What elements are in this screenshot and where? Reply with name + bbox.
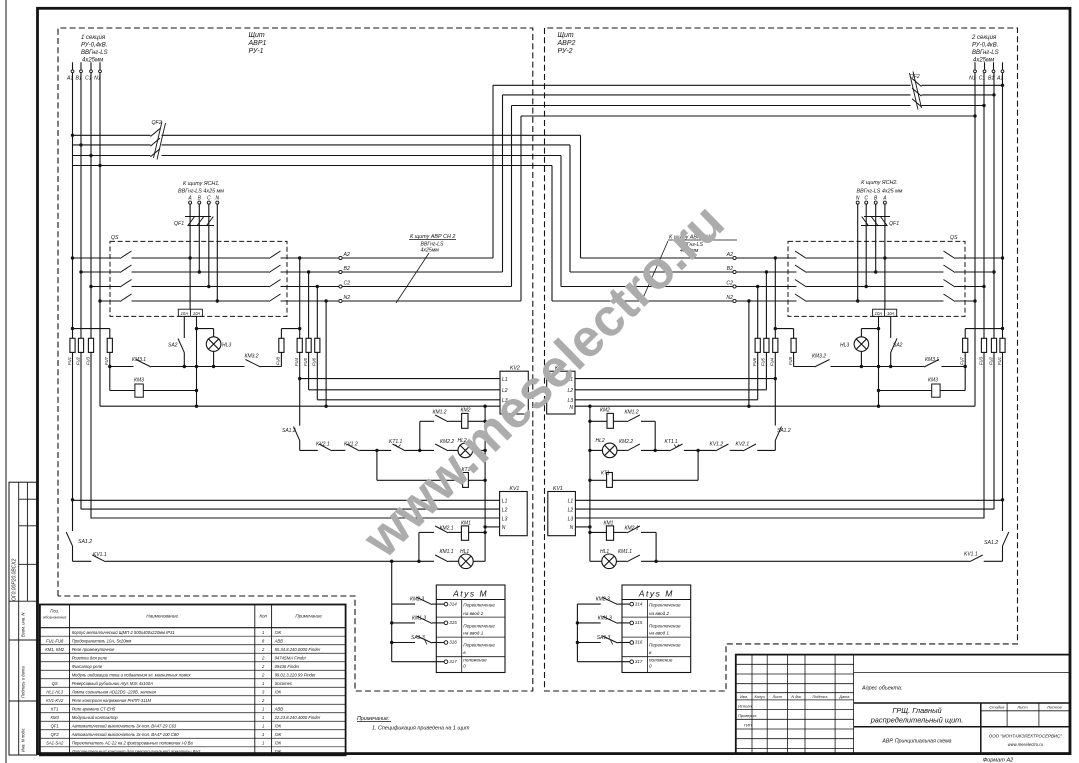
svg-text:РУ-0,4кВ.: РУ-0,4кВ. [972,43,998,49]
title block Стадия Лист Листов [989,705,1061,710]
feeder label 1 секция [81,35,108,64]
bus C section 1 to crossover [73,149,562,287]
relay box KV2 (left) [500,366,528,415]
svg-text:Поз.: Поз. [50,609,59,614]
svg-text:КМ3: КМ3 [51,715,60,720]
svg-text:A2: A2 [726,252,733,258]
svg-text:Щит: Щит [558,32,574,39]
svg-text:РУ-0,4кВ.: РУ-0,4кВ. [81,43,107,49]
svg-text:К щиту ЯСН1.: К щиту ЯСН1. [183,181,220,187]
bus A section 2 to crossover [493,79,1003,259]
contact KM3.1 (left) [132,357,151,367]
fuse FU6 (right) [752,338,760,366]
svg-text:QF2: QF2 [152,120,162,126]
svg-text:АВР. Принципиальная схема: АВР. Принципиальная схема [881,739,951,745]
svg-text:KV1: KV1 [553,486,563,492]
svg-text:FU7: FU7 [104,356,109,365]
time relay coil KT1 (right) [588,450,698,487]
svg-text:FU1: FU1 [67,357,72,365]
contact KM1.2 (left) [420,410,448,451]
svg-text:L1: L1 [568,499,574,505]
switch SA1.3 (right) [577,635,630,645]
title block header row labels [740,695,850,699]
svg-text:FU7: FU7 [960,356,965,365]
lamp HL3 (left) [197,329,232,367]
svg-text:Проверил.: Проверил. [738,713,757,718]
svg-text:315: 315 [635,620,643,625]
svg-text:B2: B2 [727,266,733,272]
svg-text:С: С [207,196,211,202]
svg-text:B2: B2 [344,266,350,272]
specification table rows [45,630,321,754]
wire KM3 control row (right) [794,365,966,368]
contact KM1.1 (right) [618,549,640,562]
svg-text:на ввод 1: на ввод 1 [463,631,483,636]
svg-text:АВР2: АВР2 [557,40,576,47]
svg-text:10А: 10А [181,311,189,316]
svg-text:FU1: FU1 [997,357,1002,365]
ATS controller Atys M box (right) [622,585,691,673]
wire row C2 (right QS) [561,280,984,288]
svg-text:314: 314 [635,601,643,606]
switch SA1.2 upper (left) [282,379,300,451]
wire Atys rail (right) [576,604,579,662]
svg-text:Переключение: Переключение [649,624,681,629]
svg-text:КМ1.3: КМ1.3 [598,615,612,621]
svg-text:Atys M: Atys M [638,589,674,599]
label Щит АВР2 РУ-2 [557,32,576,55]
svg-text:QF2: QF2 [910,74,920,80]
svg-text:1: 1 [262,732,264,737]
switch QS (right) dashed box [788,241,965,316]
svg-text:QF2: QF2 [51,732,60,737]
svg-text:Адрес объекта:: Адрес объекта: [861,686,903,692]
contact KM2.2 (left) [435,439,454,451]
svg-text:Реле времени СТ-ЕН5: Реле времени СТ-ЕН5 [72,706,116,711]
svg-text:IЭК: IЭК [275,689,282,694]
switch SA1.2 upper (right) [775,379,791,451]
svg-text:316: 316 [449,640,457,645]
fuse FU2 (right) [988,338,996,365]
relay coil KM2 (right) [588,408,627,429]
svg-text:2 секция: 2 секция [971,35,997,41]
wire N common rail (left) [484,406,486,561]
svg-text:Atys M: Atys M [452,589,488,599]
contact KM2.2 (right) [619,439,640,451]
svg-text:HL3: HL3 [222,343,231,349]
panel boundary box Щит АВР2 (dashed) [545,28,1018,691]
svg-text:на ввод 1: на ввод 1 [649,631,669,636]
node A1 B1 C1 N1 (section 1 terminals) [66,62,101,81]
node N1 C1 B1 A1 (section 2 terminals) [969,62,1004,81]
wire taps QS rows to KV2 fuses (left) [298,256,328,408]
wire meter box to N rail (left) [195,316,198,408]
svg-text:QS: QS [950,235,958,241]
svg-text:N: N [570,525,574,531]
svg-text:FU2: FU2 [75,356,80,365]
fuse FU7 (right) [960,329,968,391]
svg-text:L3: L3 [502,516,508,522]
svg-text:316: 316 [635,640,643,645]
svg-text:Подпись: Подпись [813,695,828,699]
svg-text:SA1.2: SA1.2 [984,540,998,546]
contact KM2.3 (right) [577,597,630,605]
contact KM3.1 (right) [924,357,939,367]
svg-text:ВВГнг-LS 4х25 мм: ВВГнг-LS 4х25 мм [857,189,903,195]
relay coil KM1 (left) [448,520,487,540]
svg-text:10А: 10А [193,311,201,316]
svg-text:положение: положение [649,658,673,663]
svg-text:09436 Finder: 09436 Finder [275,664,300,669]
svg-text:обозначение: обозначение [43,615,67,620]
svg-text:С: С [864,196,868,202]
svg-text:Примечание:: Примечание: [357,716,390,722]
node A B C N (ЯСН1 feeder) [187,196,219,205]
svg-text:N: N [215,196,219,202]
svg-text:КМ1, КМ2: КМ1, КМ2 [45,647,65,652]
svg-text:HL3: HL3 [840,343,849,349]
svg-text:B1: B1 [988,75,994,81]
svg-text:КМ1: КМ1 [461,520,471,526]
wires QF1 to QS rows (left) [188,204,219,309]
svg-text:Наименование: Наименование [146,614,178,619]
svg-text:L2: L2 [568,507,574,513]
wire phase C section 2 (vertical) [982,73,985,519]
svg-text:314: 314 [449,601,457,606]
ATS controller Atys M box (left) [436,585,505,673]
svg-text:KV1.2: KV1.2 [344,442,358,448]
wire N rail to KV2 (left) [100,405,500,408]
fuse FU5 (left) [303,338,311,366]
svg-text:1 секция: 1 секция [81,35,106,41]
wire meter box to N rail (right) [877,316,880,408]
svg-text:Щит: Щит [249,32,265,39]
title block signature labels [738,703,757,727]
fuse FU2 [75,338,83,365]
svg-text:Лампа сигнальная AD22DS -220В,: Лампа сигнальная AD22DS -220В, зеленая [71,689,157,694]
svg-text:Листов: Листов [1046,705,1062,710]
svg-text:ГИП: ГИП [744,723,752,728]
svg-text:QS: QS [111,235,119,241]
svg-text:Socomec: Socomec [275,681,293,686]
svg-text:КМ3: КМ3 [134,378,144,384]
svg-text:315: 315 [449,620,457,625]
switch SA1.3 (left) [392,635,445,645]
svg-text:Взам. инв. N: Взам. инв. N [21,612,26,637]
lamp HL2 (left) [458,438,473,458]
svg-text:Корпус металлический ЩМП-2 500: Корпус металлический ЩМП-2 500х400х220мм… [72,630,175,635]
svg-text:SA1.2: SA1.2 [78,539,92,545]
svg-text:К щиту ЯСН2.: К щиту ЯСН2. [861,180,898,186]
svg-text:QS: QS [52,681,58,686]
title block company [989,734,1062,748]
svg-text:22.23.8.240.4000 Finder: 22.23.8.240.4000 Finder [274,715,321,720]
svg-text:SA1.2: SA1.2 [777,428,791,434]
svg-text:1: 1 [262,706,264,711]
wire phase B section 2 (vertical) [992,73,995,510]
svg-text:ВВГнг-LS: ВВГнг-LS [81,50,108,56]
svg-text:Исполн.: Исполн. [738,703,753,708]
svg-text:FU8: FU8 [788,356,793,365]
svg-text:IЭК: IЭК [275,630,282,635]
svg-text:РУ-1: РУ-1 [249,48,264,55]
svg-text:SA2: SA2 [168,343,178,349]
panel boundary box Щит АВР1 (dashed) [58,28,533,691]
svg-text:www.meselectro.ru: www.meselectro.ru [1008,742,1044,747]
contact KM3.2 (left) [245,354,261,368]
svg-text:КМ3.1: КМ3.1 [132,357,146,363]
wire row A2 (right QS) [581,251,1003,259]
svg-text:КТ1: КТ1 [51,706,58,711]
wire taps QS rows to KV2 fuses (right) [747,256,777,408]
svg-text:FU2: FU2 [988,356,993,365]
title block outer [736,655,1070,754]
svg-text:Изм.: Изм. [740,695,748,699]
svg-text:FU6: FU6 [312,357,317,366]
svg-text:Переключение: Переключение [649,643,681,648]
contact KV1.2 (left) [344,442,360,451]
svg-text:IЭК: IЭК [275,723,282,728]
fuse FU1 (right) [997,338,1005,365]
svg-text:FU5: FU5 [303,357,308,366]
meter box 10А 10А (left) [178,309,202,316]
switch QS (left) dashed box [110,241,287,316]
svg-text:1: 1 [262,715,264,720]
svg-text:N: N [502,525,506,531]
svg-text:Реле промежуточное: Реле промежуточное [72,647,115,652]
time relay coil KT1 (left) [377,450,487,487]
svg-text:АВВ: АВВ [274,638,284,643]
bus B section 1 to crossover [73,138,571,272]
svg-text:IЭК: IЭК [275,740,282,745]
wire row A2 (left QS) [73,251,494,259]
sheet paper edge line [5,0,7,763]
svg-text:N: N [569,405,573,411]
left column stamp grid [9,482,37,755]
relay coil KM2 (left) [448,408,487,429]
svg-text:C2: C2 [726,280,733,286]
svg-text:SA1.3: SA1.3 [411,635,425,641]
relay box KV2 (right) [547,366,575,415]
circuit breaker QF1 (left) [185,204,214,226]
svg-text:КМ3.2: КМ3.2 [245,354,259,360]
meter box 10А 10А (right) [873,309,897,316]
wire feed to FU7 (right) [965,328,1002,330]
svg-text:9474SМА Finder: 9474SМА Finder [275,655,307,660]
cable tag К щиту ЯСН1 (left) [178,181,224,195]
contact KM1.3 (left) [392,615,445,623]
svg-text:К щиту АВР СН 2: К щиту АВР СН 2 [410,234,455,240]
node A2 B2 C2 N2 terminals (right) [726,252,736,303]
contact KV2.1 (right) [736,442,757,451]
svg-text:HL1: HL1 [600,549,609,555]
svg-text:ГРЩ. Главный: ГРЩ. Главный [892,706,941,715]
svg-text:Переключение: Переключение [463,603,495,608]
relay coil KM1 (right) [588,520,627,540]
wires QF1 to QS rows (right) [856,204,887,309]
wire position 0 (right) [577,661,630,663]
svg-text:HL1-HL3: HL1-HL3 [46,689,63,694]
lamp HL2 (right) [596,438,618,458]
wire riser KM branch (left) [417,532,420,563]
svg-text:FU3: FU3 [978,356,983,365]
svg-text:N док: N док [791,695,801,699]
svg-text:Автоматический выключатель 3х-: Автоматический выключатель 3х-пол. ВА47-… [71,723,177,728]
title block right part grid [854,672,1070,753]
svg-text:Реверсивный рубильник Atys M3s: Реверсивный рубильник Atys M3s 4х100А [72,681,154,686]
svg-text:КТ1: КТ1 [601,471,610,477]
contact KM3.2 (right) [812,354,830,368]
contact KM1.3 (right) [577,615,630,623]
svg-text:FU1-FU8: FU1-FU8 [46,638,64,643]
svg-text:Дополнительный контакт для све: Дополнительный контакт для светосигнальн… [71,749,201,754]
title block object name [870,706,964,725]
svg-text:N2: N2 [344,295,351,301]
note Примечание [357,716,470,732]
svg-text:КМ1.2: КМ1.2 [433,410,447,416]
circuit breaker QF2 (right) linkage [910,72,922,110]
svg-text:KV2.1: KV2.1 [316,442,330,448]
title block left grid [736,655,854,754]
relay box KV1 (right) [548,486,576,536]
svg-text:на ввод 2: на ввод 2 [649,611,669,616]
svg-text:1: 1 [262,723,264,728]
wire N common rail (right) [589,406,591,561]
contact KM2.1 (right) [625,526,657,533]
svg-text:КМ1.3: КМ1.3 [412,615,426,621]
svg-text:A2: A2 [343,252,350,258]
wire feed to FU7 (left) [73,328,110,330]
svg-text:KV1.1: KV1.1 [964,551,978,557]
svg-text:ОГ0.00Р20.0ВСХ2: ОГ0.00Р20.0ВСХ2 [12,559,18,601]
svg-text:N2: N2 [726,295,733,301]
svg-text:1: 1 [262,740,264,745]
svg-text:КМ3.2: КМ3.2 [812,354,826,360]
cable tag К щиту АВР СН 2 (left) [396,234,456,303]
wire control chain row (left) [300,449,487,452]
wire riser KM branch (right) [654,532,657,563]
wire lamp row HL1 (right) [590,560,1003,562]
label Щит АВР1 РУ-1 [248,32,267,55]
svg-text:Модуль индикации тока и подавл: Модуль индикации тока и подавления эл. м… [72,672,192,677]
fuse FU7 [104,329,112,391]
fuse FU1 [67,338,75,365]
svg-text:Дата: Дата [838,695,849,699]
wire N rail to KV2 (right) [575,405,975,408]
wire Atys rail (left) [390,560,393,662]
wire lamp row HL1 (left) [73,560,486,563]
svg-text:4х25мм: 4х25мм [973,58,994,64]
bus C section 2 to crossover [512,99,985,287]
svg-text:Модульный контактор: Модульный контактор [72,715,119,720]
svg-text:FU6: FU6 [752,357,757,366]
svg-text:L3: L3 [567,398,573,404]
contact KV1.1 (right) [964,551,983,562]
svg-text:KT1.1: KT1.1 [665,439,679,445]
contact KM2.1 (left) [419,526,454,533]
svg-text:L1: L1 [502,499,508,505]
cable tag К щиту АВР СН 1 (right) [642,235,737,302]
svg-text:10А: 10А [887,311,895,316]
svg-text:Реле контроля напряжения РНПП-: Реле контроля напряжения РНПП-311М [72,698,152,703]
svg-text:КМ2.3: КМ2.3 [596,597,610,603]
wire N section 2 (vertical) [973,73,976,407]
fuse FU8 (left) [276,329,300,367]
svg-text:КМ2.2: КМ2.2 [619,439,633,445]
svg-text:положение: положение [463,658,487,663]
feeder label 2 секция [971,35,999,64]
relay box KV1 (left) [500,486,528,536]
fuse FU6 (left) [312,338,320,366]
svg-text:Переключатель АС-22 на 2 фикси: Переключатель АС-22 на 2 фиксированных п… [72,740,194,745]
fuse FU4 (right) [770,338,778,366]
lamp HL3 (right) [840,329,879,367]
svg-text:Формат А2: Формат А2 [983,758,1014,763]
svg-text:IЭК: IЭК [275,749,282,754]
svg-text:HL1: HL1 [460,549,469,555]
svg-text:QF1: QF1 [51,723,59,728]
svg-text:АВВ: АВВ [274,706,284,711]
bus N section 2 to crossover [521,116,975,301]
wires phases to KV1 (left) [73,500,500,528]
switch SA2 (left) [168,316,184,366]
svg-text:КМ1: КМ1 [604,520,614,526]
svg-text:Стадия: Стадия [989,705,1005,710]
wire row N2 (right QS) [552,294,975,302]
specification table header [43,609,322,620]
svg-text:КМ1.2: КМ1.2 [625,410,639,416]
wire row N2 (left QS) [100,294,521,302]
svg-text:Фиксатор реле: Фиксатор реле [72,664,103,669]
svg-text:Кол: Кол [259,614,267,619]
fuse FU3 (right) [978,338,986,365]
svg-text:C2: C2 [344,280,351,286]
svg-text:АВР1: АВР1 [248,40,267,47]
contact KT1.1 (left) [389,439,406,451]
svg-text:FU4: FU4 [294,357,299,366]
svg-text:KV1: KV1 [510,486,520,492]
node A2 B2 C2 N2 terminals (left) [339,252,350,303]
lamp HL1 (left) [459,549,474,569]
bus A section 1 to crossover [73,129,581,259]
svg-text:0: 0 [463,664,466,669]
svg-text:КМ2: КМ2 [600,408,610,414]
wire phase C section 1 (vertical) [89,73,92,519]
svg-text:FU8: FU8 [276,356,281,365]
wires fuses to KV2 (left) [298,352,500,399]
svg-text:FU5: FU5 [761,357,766,366]
svg-text:Розетка для реле: Розетка для реле [72,655,108,660]
svg-text:0: 0 [649,664,652,669]
svg-text:1: 1 [262,681,264,686]
bus N section 1 to crossover [73,166,553,302]
svg-text:Переключение: Переключение [649,603,681,608]
svg-text:Инв. N подл.: Инв. N подл. [21,728,26,752]
svg-text:IЭК: IЭК [275,732,282,737]
svg-text:317: 317 [449,659,457,664]
wire phase A section 1 (vertical) [66,73,74,562]
wire row C2 (left QS) [91,280,512,288]
contact KT1.1 (right) [665,439,683,451]
svg-text:99.01.3.220.99 Finder: 99.01.3.220.99 Finder [275,672,317,677]
svg-text:SA1.2: SA1.2 [282,428,296,434]
fuse FU4 (left) [294,338,302,366]
svg-text:КМ1.1: КМ1.1 [440,549,454,555]
svg-text:SA1.3: SA1.3 [597,635,611,641]
svg-text:КМ2.1: КМ2.1 [625,526,639,532]
contact KV1.1 (left) [92,552,107,562]
cable tag К щиту ЯСН2 (right) [857,180,903,195]
